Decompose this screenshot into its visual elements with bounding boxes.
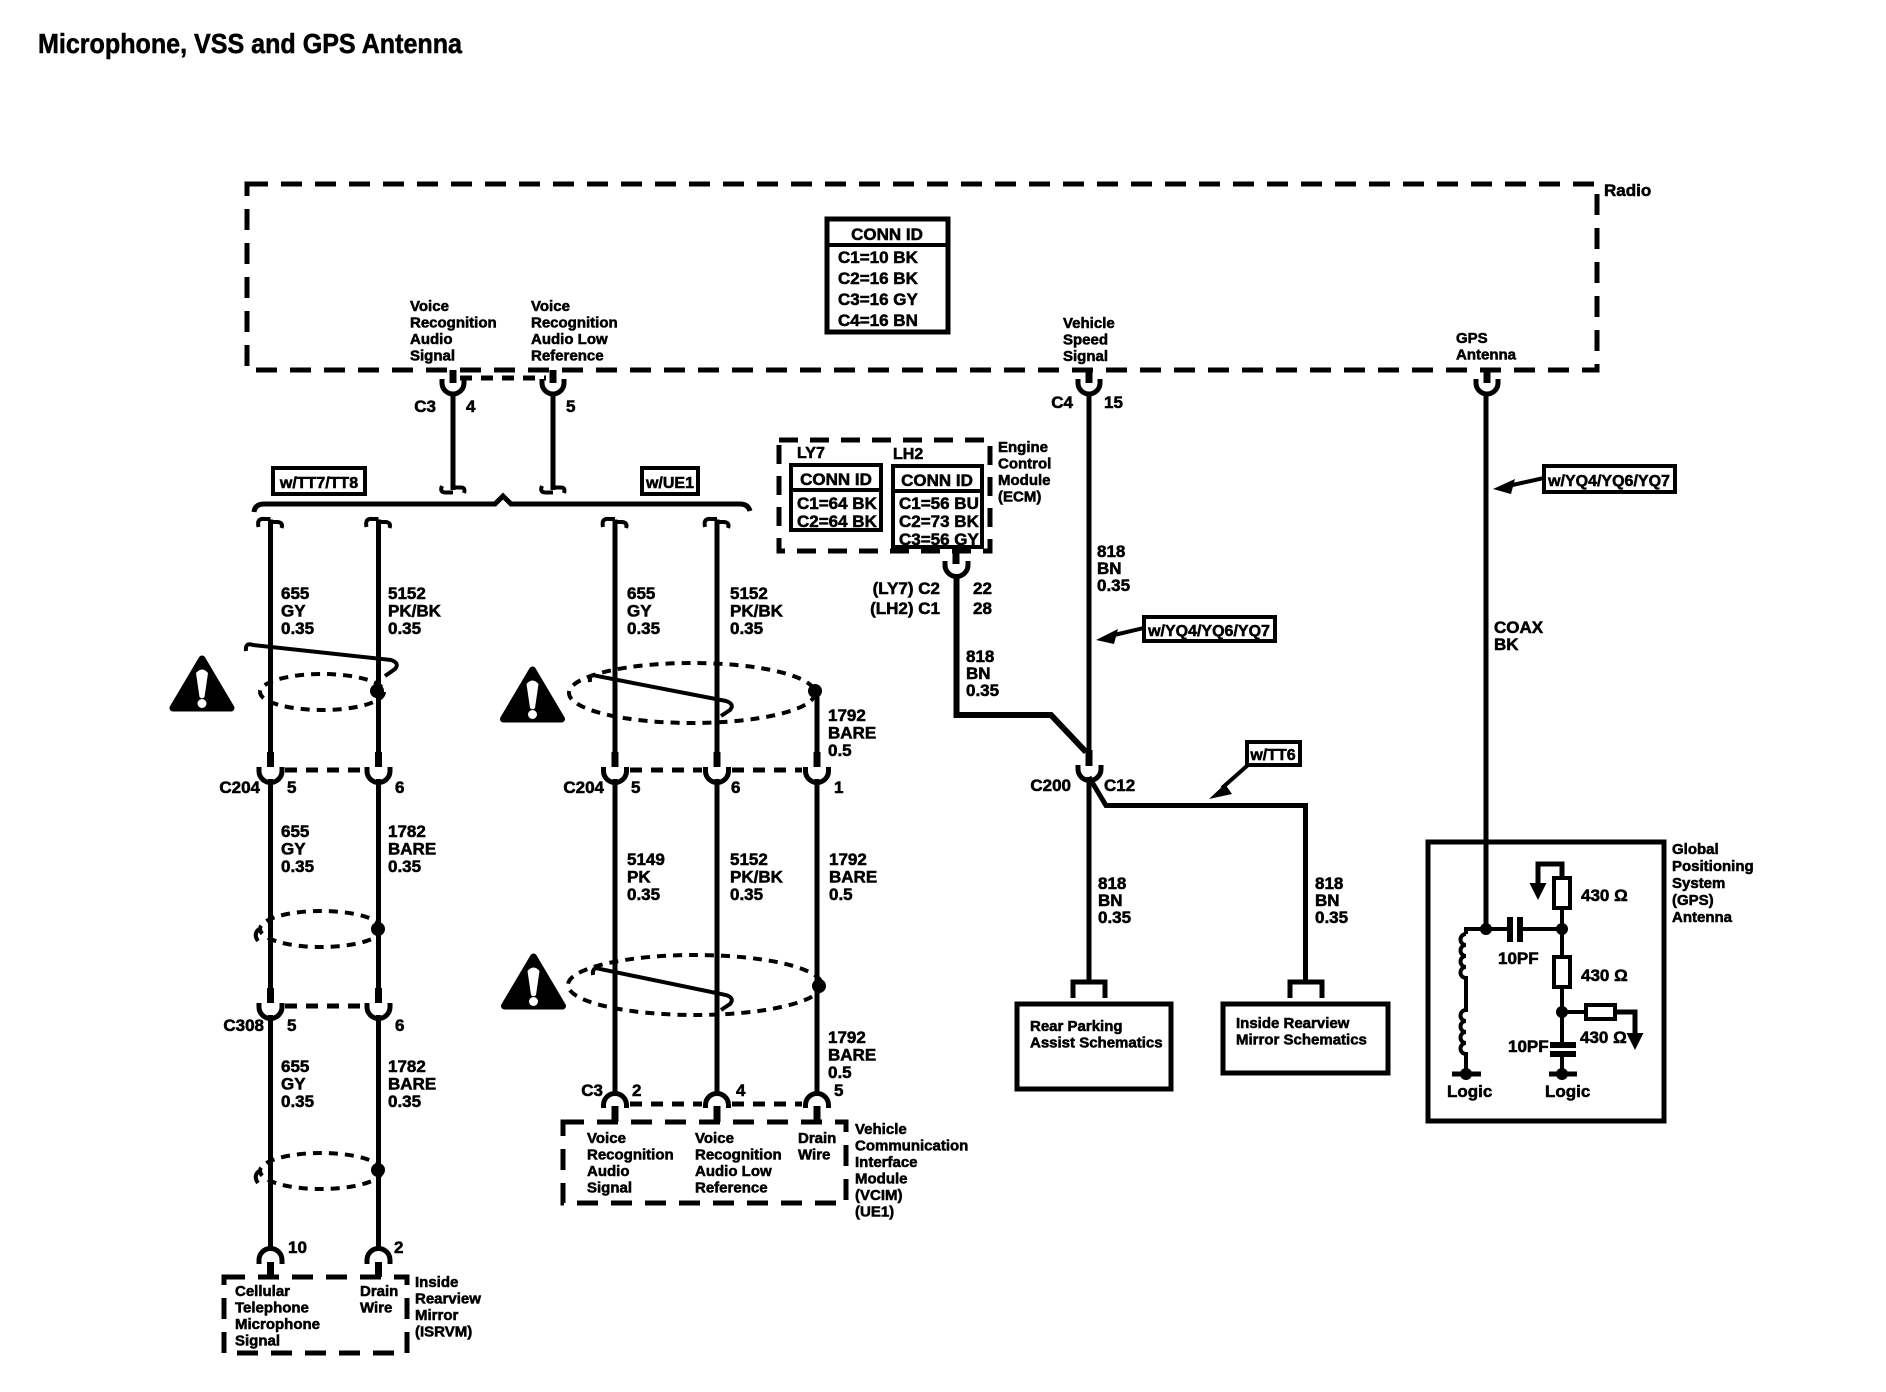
svg-text:2: 2 bbox=[394, 1238, 403, 1257]
connector C308 labels bbox=[223, 1016, 404, 1035]
svg-text:C3: C3 bbox=[414, 397, 436, 416]
wire label 1792 BARE 0.5 mid row2 bbox=[829, 850, 877, 904]
wire 655 GY mid branch top bbox=[603, 519, 627, 752]
svg-text:6: 6 bbox=[395, 1016, 404, 1035]
svg-text:Inside RearviewMirror Schemati: Inside RearviewMirror Schematics bbox=[1236, 1015, 1367, 1049]
svg-text:C3: C3 bbox=[581, 1081, 603, 1100]
twisted pair lead symbol left row1 bbox=[246, 644, 397, 676]
shield ellipse left row3 bbox=[256, 1153, 382, 1189]
svg-text:6: 6 bbox=[395, 778, 404, 797]
voice recognition audio signal pin label bbox=[410, 298, 497, 365]
svg-text:C1=64 BK: C1=64 BK bbox=[797, 494, 878, 513]
svg-text:430 Ω: 430 Ω bbox=[1581, 886, 1628, 905]
voice recognition audio low reference label VCIM bbox=[695, 1130, 782, 1197]
connector C204 mid pin 1 terminal bbox=[806, 752, 829, 783]
shield ellipse left row2 bbox=[256, 911, 382, 947]
connector C3 radio pin 5 terminal bbox=[542, 370, 564, 394]
GPS antenna pin label bbox=[1456, 330, 1517, 364]
twisted pair lead symbol mid row2 bbox=[593, 968, 732, 1010]
voice recognition audio low reference pin label bbox=[531, 298, 618, 365]
wire label 1782 BARE 0.35 left row2 bbox=[388, 822, 436, 876]
svg-text:C204: C204 bbox=[563, 778, 604, 797]
svg-text:5: 5 bbox=[631, 778, 640, 797]
connector C200 terminal bbox=[1078, 750, 1101, 781]
svg-text:430 Ω: 430 Ω bbox=[1581, 966, 1628, 985]
wire 5152 PK/BK mid row2 bbox=[715, 779, 720, 1096]
GPS antenna box bbox=[1428, 842, 1664, 1121]
svg-text:C308: C308 bbox=[223, 1016, 264, 1035]
wire 5149 PK mid row2 bbox=[613, 779, 618, 1096]
svg-text:CONN ID: CONN ID bbox=[800, 470, 872, 489]
svg-text:C3=16 GY: C3=16 GY bbox=[838, 290, 919, 309]
svg-text:C3=56 GY: C3=56 GY bbox=[899, 530, 980, 549]
svg-text:1: 1 bbox=[834, 778, 843, 797]
drain junction dot mid row1 bbox=[808, 684, 822, 698]
connector C3 radio dashed link bbox=[460, 376, 546, 381]
drain junction dot left row1 bbox=[370, 684, 384, 698]
wire 818 BN to rear parking assist bbox=[1087, 777, 1092, 981]
connector C3 radio labels bbox=[414, 397, 575, 416]
svg-text:CONN ID: CONN ID bbox=[901, 471, 973, 490]
ECM connector labels bbox=[870, 579, 992, 618]
svg-text:C2=64 BK: C2=64 BK bbox=[797, 512, 878, 531]
wire 818 BN VSS bbox=[1087, 394, 1092, 752]
svg-text:Radio: Radio bbox=[1604, 181, 1651, 200]
wire 818 BN from ECM bbox=[957, 577, 1087, 752]
connector C204 mid labels bbox=[563, 778, 843, 797]
global positioning system GPS antenna label bbox=[1672, 841, 1754, 926]
drain wire label VCIM bbox=[798, 1130, 836, 1164]
wire label 818 BN 0.35 rear parking bbox=[1098, 874, 1131, 927]
LH2 engine label bbox=[893, 446, 923, 463]
connector C308 pin 5 terminal bbox=[259, 988, 282, 1019]
wire label 818 BN 0.35 ECM bbox=[966, 647, 999, 700]
connector C204 mid pin 6 terminal bbox=[706, 752, 729, 783]
wire label 1782 BARE 0.35 left row3 bbox=[388, 1057, 436, 1111]
svg-text:(LY7) C2: (LY7) C2 bbox=[873, 579, 940, 598]
title bbox=[38, 28, 462, 59]
svg-text:w/UE1: w/UE1 bbox=[645, 475, 694, 492]
svg-text:430 Ω: 430 Ω bbox=[1580, 1028, 1627, 1047]
vehicle communication interface module VCIM UE1 label bbox=[855, 1121, 968, 1221]
connector C204 left pin 6 terminal bbox=[367, 752, 390, 783]
svg-text:C2=16 BK: C2=16 BK bbox=[838, 269, 919, 288]
LH2 CONN ID table bbox=[893, 466, 982, 549]
ground logic 2 bbox=[1545, 1068, 1590, 1101]
svg-text:5: 5 bbox=[287, 1016, 296, 1035]
wire from C3 pin 4 bbox=[441, 394, 464, 493]
svg-text:C2=73 BK: C2=73 BK bbox=[899, 512, 980, 531]
w/TT7/TT8 option label bbox=[273, 468, 365, 494]
svg-text:CONN ID: CONN ID bbox=[851, 225, 923, 244]
svg-text:5: 5 bbox=[287, 778, 296, 797]
svg-text:Logic: Logic bbox=[1447, 1082, 1492, 1101]
wire label 818 BN 0.35 rearview mirror bbox=[1315, 874, 1348, 927]
wire label 5152 PK/BK 0.35 mid row1 bbox=[730, 584, 784, 638]
drain junction dot left row3 bbox=[371, 1163, 385, 1177]
radio label bbox=[1604, 181, 1651, 200]
wire 655 GY left branch top bbox=[258, 519, 282, 752]
node C junction dot bbox=[1556, 1006, 1568, 1018]
GPS antenna radio terminal bbox=[1476, 370, 1498, 394]
svg-text:6: 6 bbox=[731, 778, 740, 797]
svg-text:10: 10 bbox=[288, 1238, 307, 1257]
radio module box bbox=[247, 184, 1597, 370]
wire 818 BN to inside rearview mirror bbox=[1089, 777, 1306, 981]
svg-text:4: 4 bbox=[736, 1081, 746, 1100]
VCIM module box bbox=[563, 1122, 846, 1203]
connector C204 left pin 5 terminal bbox=[259, 752, 282, 783]
capacitor 10PF upper bbox=[1486, 917, 1562, 968]
ISRVM pin labels bbox=[288, 1238, 403, 1257]
warning triangle 1 bbox=[173, 659, 231, 708]
ISRVM module box bbox=[224, 1277, 407, 1353]
svg-text:C12: C12 bbox=[1104, 776, 1135, 795]
connector C4 radio terminal bbox=[1078, 370, 1100, 394]
svg-text:w/TT6: w/TT6 bbox=[1249, 747, 1295, 764]
drain wire label 1792 BARE 0.5 mid row1 bbox=[828, 706, 876, 760]
connector C204 left labels bbox=[219, 778, 404, 797]
shield ellipse mid row1 bbox=[569, 663, 815, 723]
w/TT6 option label bbox=[1209, 742, 1300, 799]
wire label 5152 PK/BK 0.35 left row1 bbox=[388, 584, 442, 638]
wire label 655 GY 0.35 left row2 bbox=[281, 822, 314, 876]
LY7 engine label bbox=[797, 445, 825, 462]
wire 5152 PK/BK left branch top bbox=[366, 519, 390, 752]
connector C308 pin 6 terminal bbox=[367, 988, 390, 1019]
engine control module box bbox=[779, 440, 990, 551]
drain junction dot left row2 bbox=[371, 922, 385, 936]
svg-text:5: 5 bbox=[834, 1081, 843, 1100]
ISRVM pin 10 terminal bbox=[259, 1249, 282, 1278]
svg-text:w/TT7/TT8: w/TT7/TT8 bbox=[279, 475, 358, 492]
connector C308 dashed link bbox=[285, 1004, 364, 1009]
svg-text:C4=16 BN: C4=16 BN bbox=[838, 311, 918, 330]
warning triangle 2 bbox=[504, 670, 562, 719]
svg-text:C200: C200 bbox=[1030, 776, 1071, 795]
svg-text:(LH2) C1: (LH2) C1 bbox=[870, 599, 940, 618]
inductor L1 bbox=[1461, 929, 1486, 1072]
connector C204 left dashed link bbox=[285, 768, 364, 773]
connector C4 radio labels bbox=[1051, 393, 1123, 412]
w/YQ4/YQ6/YQ7 option label right bbox=[1493, 466, 1675, 494]
svg-text:LY7: LY7 bbox=[797, 445, 825, 462]
radio CONN ID table bbox=[827, 219, 948, 332]
svg-text:5: 5 bbox=[566, 397, 575, 416]
svg-text:15: 15 bbox=[1104, 393, 1123, 412]
connector C200 labels bbox=[1030, 776, 1135, 795]
connector C3 VCIM labels bbox=[581, 1081, 843, 1100]
svg-text:C204: C204 bbox=[219, 778, 260, 797]
svg-text:22: 22 bbox=[973, 579, 992, 598]
svg-text:VehicleSpeedSignal: VehicleSpeedSignal bbox=[1063, 315, 1115, 365]
drain wire 1792 BARE mid row2 bbox=[815, 779, 820, 1096]
svg-text:4: 4 bbox=[466, 397, 476, 416]
svg-text:10PF: 10PF bbox=[1498, 949, 1539, 968]
wire 5152 PK/BK mid branch top bbox=[705, 519, 729, 752]
connector C204 mid dashed links bbox=[630, 768, 802, 773]
rear parking wire box entry bracket bbox=[1073, 982, 1105, 998]
connector C3 VCIM pin 2 terminal bbox=[604, 1094, 627, 1123]
resistor 430 ohm lower bbox=[1562, 1005, 1644, 1050]
connector C3 VCIM pin 4 terminal bbox=[706, 1094, 729, 1123]
drain wire mid row1 bbox=[815, 691, 820, 752]
wire label 5149 PK 0.35 mid row2 bbox=[627, 850, 665, 904]
vehicle speed signal pin label bbox=[1063, 315, 1115, 365]
connector C3 radio pin 4 terminal bbox=[442, 370, 464, 394]
harness split brace bbox=[254, 496, 750, 512]
connector C3 VCIM pin 5 terminal bbox=[806, 1094, 829, 1123]
warning triangle 3 bbox=[505, 957, 563, 1006]
drain wire label ISRVM bbox=[360, 1283, 398, 1317]
wire 655 GY left row3 bbox=[268, 1015, 273, 1250]
resistor 430 ohm upper bbox=[1530, 864, 1628, 929]
wire label 1792 BARE 0.5 mid row3 bbox=[828, 1028, 876, 1082]
wire label 655 GY 0.35 mid row1 bbox=[627, 584, 660, 638]
svg-text:C4: C4 bbox=[1051, 393, 1073, 412]
node A junction dot bbox=[1480, 923, 1492, 935]
rearview wire box entry bracket bbox=[1290, 982, 1322, 998]
coax wire GPS bbox=[1484, 394, 1489, 929]
ISRVM pin 2 terminal bbox=[367, 1249, 390, 1278]
ground logic 1 bbox=[1447, 1068, 1492, 1101]
svg-text:C1=10 BK: C1=10 BK bbox=[838, 248, 919, 267]
inside rearview mirror schematics box bbox=[1223, 1004, 1388, 1073]
wire label COAX BK bbox=[1494, 618, 1544, 654]
wire 1782 BARE left row2 bbox=[376, 779, 381, 988]
wire label 655 GY 0.35 left row1 bbox=[281, 584, 314, 638]
voice recognition audio signal label VCIM bbox=[587, 1130, 674, 1197]
cellular telephone microphone signal label bbox=[235, 1283, 320, 1350]
inside rearview mirror ISRVM label bbox=[415, 1274, 481, 1341]
w/UE1 option label bbox=[642, 468, 698, 494]
wire label 818 BN 0.35 VSS bbox=[1097, 542, 1130, 595]
svg-text:10PF: 10PF bbox=[1508, 1037, 1549, 1056]
wire from C3 pin 5 bbox=[541, 394, 564, 493]
svg-text:w/YQ4/YQ6/YQ7: w/YQ4/YQ6/YQ7 bbox=[1547, 473, 1670, 490]
engine control module ECM label bbox=[998, 439, 1051, 506]
wire 1782 BARE left row3 bbox=[376, 1015, 381, 1250]
svg-text:2: 2 bbox=[632, 1081, 641, 1100]
svg-text:Microphone, VSS and GPS Antenn: Microphone, VSS and GPS Antenna bbox=[38, 28, 462, 59]
ECM connector terminal bbox=[945, 551, 968, 577]
svg-text:28: 28 bbox=[973, 599, 992, 618]
rear parking assist schematics box bbox=[1017, 1004, 1171, 1089]
w/YQ4/YQ6/YQ7 option label left bbox=[1096, 617, 1275, 644]
svg-text:w/YQ4/YQ6/YQ7: w/YQ4/YQ6/YQ7 bbox=[1147, 623, 1270, 640]
capacitor 10PF lower bbox=[1508, 1012, 1576, 1072]
drain junction dot mid row2 bbox=[812, 979, 826, 993]
twisted pair lead symbol mid row1 bbox=[590, 675, 732, 716]
svg-text:Logic: Logic bbox=[1545, 1082, 1590, 1101]
node B junction dot bbox=[1556, 923, 1568, 935]
LY7 CONN ID table bbox=[791, 465, 881, 531]
wire label 655 GY 0.35 left row3 bbox=[281, 1057, 314, 1111]
shield ellipse left row1 bbox=[260, 674, 384, 710]
connector C204 mid pin 5 terminal bbox=[604, 752, 627, 783]
svg-text:LH2: LH2 bbox=[893, 446, 923, 463]
shield ellipse mid row2 bbox=[568, 955, 822, 1015]
svg-text:C1=56 BU: C1=56 BU bbox=[899, 494, 979, 513]
wire 655 GY left row2 bbox=[268, 779, 273, 988]
connector C3 VCIM dashed links bbox=[630, 1102, 802, 1107]
wire label 5152 PK/BK 0.35 mid row2 bbox=[730, 850, 784, 904]
resistor 430 ohm middle bbox=[1554, 929, 1628, 1012]
